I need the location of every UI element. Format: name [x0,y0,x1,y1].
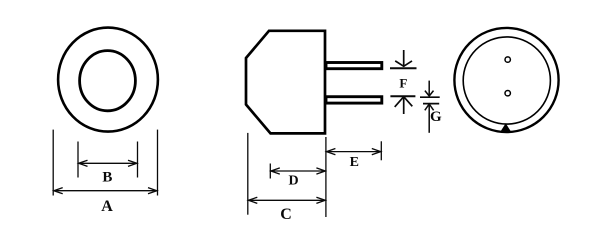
svg-text:B: B [102,170,112,186]
dimension D arrow line [271,168,325,174]
svg-text:C: C [280,206,292,222]
dimension B right extension line [137,142,139,178]
dimension F bottom arrow (points up to pin 2) [390,96,415,114]
dimension C arrow line [248,197,325,203]
dimension F top arrow (points down to pin 1) [390,50,417,68]
dimension B left extension line [77,142,79,178]
svg-text:G: G [430,109,442,125]
dimension G top arrow (points down) [420,81,440,98]
side view body outline [246,31,325,134]
dimension A left extension line [52,130,54,196]
dimension B arrow line [79,160,137,166]
front view inner circle [80,51,136,111]
svg-text:A: A [101,198,113,215]
pin 1 (top lead) [326,63,382,69]
front view outer circle (transducer face) [58,28,158,132]
pin 2 (bottom lead) [326,97,382,103]
dimension A right extension line [157,130,159,196]
back view outer circle [454,28,558,132]
back view pin hole 1 [505,57,510,62]
dimension C/D/E right extension line [325,137,327,217]
svg-text:E: E [350,155,359,170]
dimension C left extension line [247,133,249,215]
dimension E right extension tick [380,141,382,160]
back view polarity marker triangle [501,123,511,131]
svg-text:F: F [399,75,407,90]
dimension G bottom arrow (points up) [423,104,439,133]
dimension D left extension tick [269,164,271,179]
svg-text:D: D [288,174,298,189]
dimension E arrow line [327,149,381,155]
back view pin hole 2 [505,91,510,96]
back view inner circle [463,37,550,124]
dimension A arrow line [54,188,157,194]
